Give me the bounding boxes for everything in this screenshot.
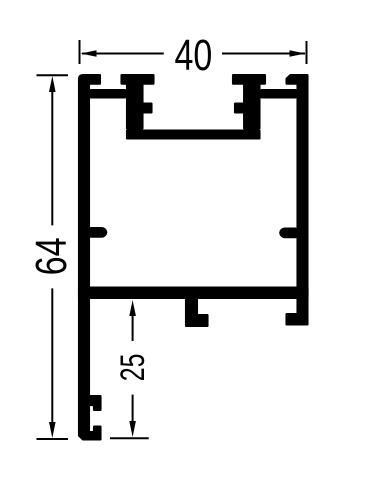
svg-text:40: 40 — [175, 32, 213, 80]
dim 25 line upper segment — [132, 314, 134, 341]
profile right mid tab — [280, 229, 295, 237]
dim 40 arrowhead right — [290, 50, 306, 57]
dim 64 line lower segment — [51, 288, 53, 424]
profile bottom bar — [79, 288, 307, 298]
dim 40 extension tick left — [79, 40, 81, 64]
profile top-left flange — [91, 90, 125, 97]
profile channel bottom web — [127, 131, 259, 139]
dim 40 arrowhead left — [81, 50, 97, 57]
dim 40 line left segment — [82, 53, 164, 55]
dim 25 line lower segment — [132, 395, 134, 422]
dim 64 extension tick top — [37, 74, 69, 76]
profile right wall with top cap and bottom foot — [287, 75, 308, 324]
dim 64 arrowhead up — [49, 76, 56, 92]
profile left hanging tab — [186, 298, 207, 326]
profile left wall with top cap and bottom hook — [79, 75, 100, 439]
dim 25 extension tick bottom — [110, 437, 149, 439]
dim 64 arrowhead down — [49, 422, 56, 438]
profile left T-slot tab — [122, 75, 154, 128]
profile top-right flange — [262, 90, 296, 97]
profile left mid tab — [91, 228, 106, 236]
dim 25 arrowhead down — [129, 421, 136, 437]
profile right T-slot tab — [233, 75, 265, 128]
svg-text:25: 25 — [114, 354, 152, 382]
dim 25 arrowhead up — [129, 300, 136, 316]
svg-text:64: 64 — [28, 237, 76, 275]
dim 64 extension tick bottom — [37, 438, 69, 440]
dim 40 extension tick right — [306, 41, 308, 64]
dim 64 line upper segment — [51, 90, 53, 225]
dim 40 line right segment — [222, 53, 305, 55]
